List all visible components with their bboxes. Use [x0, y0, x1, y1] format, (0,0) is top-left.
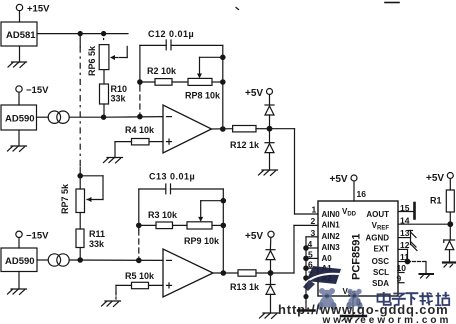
glyph xia: [406, 293, 419, 305]
watermark mascot 2: [346, 289, 362, 309]
watermark mascot 1: [318, 288, 337, 310]
power -15V (upper): [16, 85, 49, 105]
resistor R2: [140, 66, 188, 85]
resistor R4: [115, 125, 163, 158]
ground OSC: [420, 274, 434, 278]
svg-text:+5V: +5V: [245, 88, 263, 99]
diode D2 (to ground): [265, 129, 274, 170]
svg-text:AIN2: AIN2: [322, 232, 341, 241]
symbol AGND arrow: [408, 231, 417, 251]
glyph zai: [419, 292, 433, 305]
node op-amp2 output: [221, 271, 225, 275]
current source symbol (lower): [37, 254, 163, 266]
svg-text:RP8 10k: RP8 10k: [185, 91, 221, 101]
svg-text:R1: R1: [430, 196, 442, 206]
svg-text:9: 9: [397, 274, 402, 284]
svg-text:R5 10k: R5 10k: [125, 271, 155, 281]
watermark text CJK dianzi xiazaizhan: [378, 292, 450, 306]
IC U3 PCF8591: [318, 201, 398, 296]
svg-text:A0: A0: [322, 254, 333, 263]
ground: [259, 170, 278, 175]
ground: [8, 130, 27, 151]
node R11 bottom: [78, 258, 82, 262]
node clamp1: [267, 126, 272, 131]
svg-text:AIN3: AIN3: [322, 243, 341, 252]
svg-text:+5V: +5V: [330, 174, 348, 185]
terminal AOUT bar: [413, 203, 416, 219]
node RP7 top junction: [78, 174, 82, 178]
wire clamp2 to AIN1: [271, 225, 319, 273]
glyph zhan: [435, 292, 449, 306]
potentiometer RP9: [184, 201, 223, 246]
pin stub A2: [306, 277, 318, 279]
svg-text:R11: R11: [89, 229, 105, 239]
svg-text:AIN1: AIN1: [322, 221, 341, 230]
wire feedback left vertical (upper): [139, 45, 141, 116]
capacitor C12: [140, 29, 223, 50]
svg-text:−15V: −15V: [26, 85, 49, 96]
sensor AD590 (upper): [1, 105, 37, 130]
node RP9 wiper junction: [221, 199, 225, 203]
svg-text:C13 0.01µ: C13 0.01µ: [149, 172, 195, 182]
pin stub A1: [306, 267, 318, 269]
node ref-line junction: [78, 31, 82, 35]
svg-text:AOUT: AOUT: [366, 210, 389, 219]
node RP6 top junction: [102, 31, 106, 35]
svg-text:SDA: SDA: [372, 279, 389, 288]
node EXT/OSC: [405, 259, 410, 264]
node R10 bottom: [102, 115, 106, 119]
wire AIN2 to bus: [306, 237, 318, 302]
resistor R1: [430, 190, 454, 240]
svg-text:RP9 10k: RP9 10k: [184, 236, 220, 246]
svg-text:12: 12: [400, 240, 410, 250]
wire reference vertical: [79, 34, 81, 189]
node RP8 right junction: [221, 80, 225, 84]
pin stub A0: [306, 257, 318, 259]
resistor R5: [116, 271, 163, 301]
node RP8 wiper junction: [221, 55, 225, 59]
glyph dian: [378, 292, 391, 305]
svg-text:R3 10k: R3 10k: [148, 210, 178, 220]
node bus A0: [304, 256, 308, 260]
svg-text:AD590: AD590: [5, 114, 35, 125]
resistor R3: [139, 210, 187, 229]
diode D3 (to +5V): [266, 250, 275, 273]
wire AD581 output rail: [37, 33, 128, 35]
svg-text:2: 2: [311, 216, 316, 226]
svg-text:www.eeworm.com: www.eeworm.com: [322, 315, 452, 324]
resistor R13: [230, 270, 271, 292]
svg-text:R10: R10: [111, 84, 128, 94]
power +5V (R1): [426, 173, 453, 191]
svg-text:AD590: AD590: [5, 256, 35, 267]
svg-text:R2 10k: R2 10k: [147, 66, 177, 76]
node RP9 right junction: [221, 223, 225, 227]
sensor AD590 (lower): [1, 248, 37, 272]
ground: [260, 313, 279, 318]
node bus A1: [304, 266, 308, 270]
node Vref: [448, 222, 453, 227]
svg-text:PCF8591: PCF8591: [351, 234, 363, 280]
svg-text:RP7 5k: RP7 5k: [60, 183, 70, 214]
svg-text:RP6 5k: RP6 5k: [87, 45, 97, 76]
pin label Vss + pin 8: [343, 287, 362, 316]
glyph zi: [392, 294, 406, 305]
node bus A2: [304, 276, 308, 280]
ground Vss: [341, 316, 366, 321]
wire clamp1 to AIN0: [270, 129, 319, 214]
svg-text:R4 10k: R4 10k: [125, 125, 155, 135]
op-amp U1: [163, 105, 233, 153]
svg-text:SCL: SCL: [373, 268, 389, 277]
resistor R12: [230, 126, 270, 151]
ground: [8, 46, 27, 67]
ground: [104, 158, 123, 163]
svg-text:10: 10: [397, 263, 407, 273]
svg-text:1: 1: [312, 205, 317, 215]
node clamp2: [268, 271, 273, 276]
diode D4 (to ground): [266, 273, 275, 313]
resistor R10: [100, 70, 128, 118]
stray mark top right: [385, 2, 399, 4]
svg-text:+5V: +5V: [245, 231, 263, 242]
svg-text:AD581: AD581: [6, 30, 36, 41]
wire feedback right vertical (lower): [222, 189, 224, 273]
watermark logo swoosh: [303, 266, 341, 291]
svg-text:VREF: VREF: [372, 221, 390, 232]
wire OSC to ground: [408, 262, 427, 274]
potentiometer RP7: [60, 176, 103, 214]
ground bus bar: [305, 302, 307, 310]
node R3 left: [137, 223, 141, 227]
node bus AIN3: [304, 246, 308, 250]
svg-text:AGND: AGND: [365, 234, 389, 243]
op-amp U2: [163, 249, 238, 297]
ground zener: [443, 263, 456, 268]
svg-text:AIN0: AIN0: [322, 210, 341, 219]
stray mark top: [236, 8, 239, 10]
svg-text:16: 16: [357, 189, 367, 199]
svg-text:VDD: VDD: [342, 207, 357, 218]
svg-text:33k: 33k: [111, 94, 127, 104]
resistor R11: [76, 213, 105, 261]
ground: [102, 301, 121, 306]
current source symbol (upper): [37, 111, 102, 123]
power -15V (lower): [16, 231, 49, 249]
power +5V (lower clamp): [245, 231, 274, 250]
svg-text:EXT: EXT: [373, 245, 389, 254]
wire loop to op-amp: [106, 116, 163, 119]
power +5V (Vdd): [330, 174, 367, 201]
regulator AD581: [1, 22, 37, 46]
power +15V: [16, 4, 50, 23]
wire feedback left vertical (lower): [138, 189, 140, 260]
svg-text:R13 1k: R13 1k: [230, 282, 260, 292]
zener diode VD: [444, 240, 455, 262]
svg-text:R12 1k: R12 1k: [230, 140, 260, 150]
node feedback left (upper): [138, 114, 142, 118]
svg-text:−15V: −15V: [26, 231, 49, 242]
potentiometer RP6: [87, 39, 127, 77]
svg-text:OSC: OSC: [372, 257, 390, 266]
svg-text:13: 13: [400, 228, 410, 238]
svg-text:33k: 33k: [89, 239, 105, 249]
capacitor C13: [139, 172, 224, 194]
node op-amp1 output: [221, 127, 225, 131]
power +5V (upper clamp): [245, 88, 273, 105]
ground: [8, 272, 27, 295]
node feedback left (lower): [137, 258, 141, 262]
node R2 left: [138, 80, 142, 84]
svg-text:+5V: +5V: [426, 173, 444, 184]
svg-text:C12 0.01µ: C12 0.01µ: [148, 29, 194, 39]
diode D1 (to +5V): [265, 105, 274, 129]
potentiometer RP8: [185, 57, 223, 100]
wire feedback right vertical (upper): [222, 45, 224, 129]
node bus bottom: [304, 295, 308, 299]
pin stub AIN3: [306, 247, 318, 249]
svg-text:+15V: +15V: [27, 4, 50, 15]
